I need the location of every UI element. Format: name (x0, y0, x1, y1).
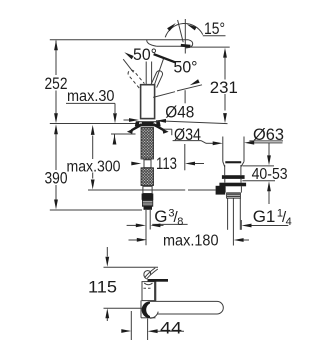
svg-text:max.300: max.300 (67, 158, 121, 175)
svg-text:max.180: max.180 (163, 232, 219, 249)
svg-text:max.30: max.30 (67, 88, 115, 105)
svg-text:113: 113 (156, 154, 177, 173)
svg-text:231: 231 (210, 78, 238, 97)
svg-text:390: 390 (45, 168, 68, 187)
svg-text:115: 115 (88, 277, 117, 296)
svg-text:252: 252 (45, 74, 68, 93)
svg-text:Ø34: Ø34 (174, 125, 201, 144)
svg-text:Ø48: Ø48 (165, 103, 194, 122)
svg-text:50°: 50° (133, 45, 157, 64)
svg-text:40-53: 40-53 (252, 166, 288, 183)
svg-text:G3/8: G3/8 (154, 207, 183, 228)
svg-text:G11/4: G11/4 (253, 207, 292, 228)
svg-text:Ø63: Ø63 (253, 125, 284, 144)
svg-text:15°: 15° (204, 19, 225, 38)
svg-text:50°: 50° (174, 58, 198, 77)
svg-text:44: 44 (160, 319, 182, 338)
